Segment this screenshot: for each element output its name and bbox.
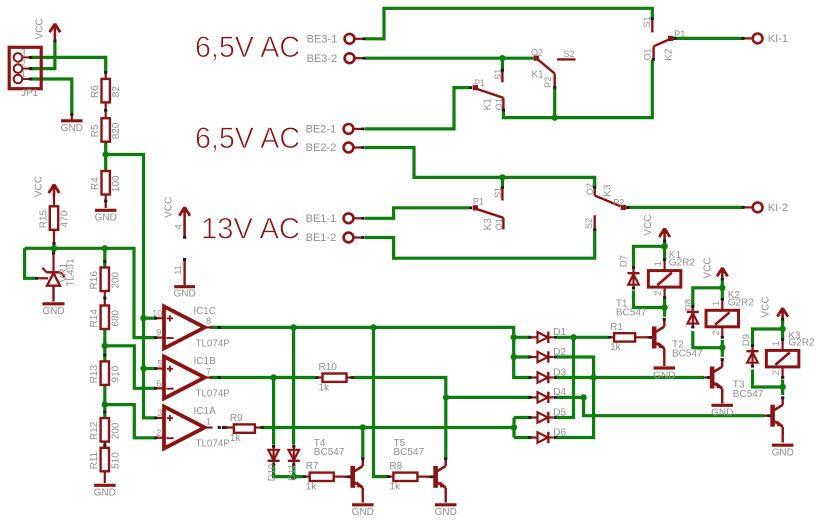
wire to D5 anode [514,416,531,419]
switch contact K2 (S1-P1-O1) [642,16,686,60]
junction S1 K3 on BE2-2 net [499,174,505,180]
svg-text:P1: P1 [674,29,685,39]
svg-text:BC547: BC547 [733,389,764,400]
wire to D4 anode [446,396,531,399]
wire D8 anode to K2 coil 2 [693,331,723,348]
svg-text:1: 1 [653,261,663,266]
svg-text:GND: GND [772,448,794,459]
transistor T1 BC547 [645,318,666,356]
svg-text:2: 2 [21,59,26,69]
svg-text:82: 82 [111,86,122,98]
wire D10 cathode to R7 [274,465,303,477]
svg-text:510: 510 [110,452,121,469]
wire IC1B out to R10 [210,376,316,379]
resistor R16 [89,268,121,292]
wire ref to VR1 reference pin [25,248,36,278]
wire IC1C out to D1 D2 anodes [210,327,531,357]
svg-text:O2: O2 [585,183,595,195]
wire S1 stub K1 [501,58,504,69]
wire P1 K2 to KI-1 [673,37,743,40]
wire D10 anode [272,378,275,445]
svg-text:BE2-2: BE2-2 [306,142,337,154]
wire D11 cathode down [292,465,295,477]
junction R16 top [102,245,108,251]
wire D9 anode to K3 coil 2 [753,370,783,388]
svg-text:BE2-1: BE2-1 [306,124,337,136]
wire IC1A out to R9 [223,426,228,429]
svg-text:2: 2 [771,370,781,375]
wire to pin 5 [144,367,157,370]
transistor T3 BC547 [764,396,785,434]
svg-text:S2: S2 [564,49,575,59]
svg-text:P2: P2 [613,197,624,207]
svg-text:D9: D9 [741,334,752,346]
svg-text:D8: D8 [684,299,695,311]
svg-text:GND: GND [435,507,457,518]
svg-text:5: 5 [157,359,162,369]
wire R6-R5 junction [105,103,107,119]
resistor R8 [389,461,417,492]
junction D11 branch [290,324,296,330]
relay K3 G2R2 [766,338,799,379]
switch contact K3 upper (O2-P2-S2) [584,183,629,231]
resistor R15 [38,206,70,230]
junction D10 branch [270,374,276,380]
diode D2 [528,351,556,362]
svg-text:P1: P1 [474,78,485,88]
diode D4 [528,392,556,403]
svg-text:G2R2: G2R2 [788,338,815,349]
terminal KI-1 [742,33,788,45]
terminal BE3-1 [307,34,366,46]
junction D1 anode [511,334,517,340]
terminal BE2-2 [306,142,365,154]
svg-text:GND: GND [653,370,675,381]
switch contact K3 lower (S1-P1-O1) [469,186,504,230]
svg-text:R16: R16 [89,271,100,290]
resistor R10 [319,362,347,393]
wire BE2-1 to P1 of K1 [365,88,470,129]
wire JP1 pin3 to R6 [31,57,106,71]
ground GND T3 [772,445,794,458]
junction K3 coil 2 [779,384,785,390]
wire R14-R13 tap up [103,329,106,346]
junction R8 branch [370,324,376,330]
diode D1 [528,332,556,343]
ground GND VR1 [42,304,64,317]
svg-text:D3: D3 [553,367,566,378]
wire VCC to D7 cathode [634,246,665,266]
svg-text:6,5V AC: 6,5V AC [195,122,300,155]
svg-text:IC1C: IC1C [194,306,216,317]
power VCC K2 [703,257,728,279]
resistor R7 [306,461,334,492]
wire O1 K1 to O1 K2 [503,60,652,118]
power VCC op-amp pin 4 [164,197,190,239]
ground GND R11 [94,485,116,498]
svg-text:3: 3 [21,47,26,57]
svg-text:GND: GND [61,123,83,134]
svg-text:D10: D10 [267,464,278,481]
svg-text:D11: D11 [287,464,298,481]
svg-text:GND: GND [173,289,195,300]
resistor R6 [90,79,122,103]
svg-text:1k: 1k [306,481,318,492]
svg-text:S1: S1 [642,16,652,27]
svg-text:100: 100 [111,175,122,192]
wire divider tap to op-amp + inputs [106,155,156,418]
terminal KI-2 [742,202,788,214]
junction D1/D5 cathodes [570,334,576,340]
resistor R12 [89,418,121,442]
wire tap to R12 [103,405,106,419]
wire R16-R14 [104,291,106,306]
wire VCC to JP1 pin2 [31,42,55,69]
ground GND T1 [653,368,675,381]
svg-text:O2: O2 [531,48,543,58]
wire R13-R12 tap [103,385,106,405]
wire R10 to T5 collector [353,378,446,460]
wire K3 coil to T3 collector [781,380,784,396]
svg-text:8: 8 [206,316,211,326]
wire to T4 collector [361,428,364,460]
resistor R11 [89,448,121,472]
svg-text:K3: K3 [483,218,494,231]
power VCC K1 [643,214,670,240]
svg-text:R14: R14 [89,309,100,328]
svg-text:D6: D6 [553,427,566,438]
wire P2 K3 to KI-2 [626,206,744,209]
wire VR1 cathode [52,250,54,272]
svg-text:6: 6 [156,378,161,388]
svg-text:R9: R9 [230,413,243,424]
resistor R1 [610,322,635,353]
svg-text:D5: D5 [553,407,566,418]
wire K2 coil to T2 collector [721,340,724,357]
svg-text:VCC: VCC [34,176,45,197]
svg-text:1: 1 [711,301,721,306]
svg-text:R6: R6 [90,85,101,98]
svg-text:D4: D4 [553,387,566,398]
terminal BE3-2 [307,53,366,65]
svg-text:2: 2 [711,330,721,335]
terminal BE1-2 [306,232,365,244]
svg-text:IC1B: IC1B [194,356,217,367]
svg-text:IC1A: IC1A [194,406,217,417]
svg-text:2: 2 [156,428,161,438]
relay K2 G2R2 [706,298,739,339]
junction K1 VCC [661,243,667,249]
wire tap to pin 6 [105,346,156,389]
wire VCC to D9 cathode [753,329,783,346]
svg-text:470: 470 [60,210,71,227]
wire BE1-1 to P1 of K3 [365,208,470,219]
ground GND op-amp pin 11 [173,258,196,300]
ground GND T2 [711,405,733,418]
svg-text:S2: S2 [584,218,594,229]
power VCC R15 [34,176,60,197]
svg-text:GND: GND [352,507,374,518]
wire BE2-2 to O2 of K3 [365,148,595,187]
resistor R5 [90,118,122,142]
wire tap to R13 [103,346,106,362]
connector JP1 [9,47,41,99]
wire D5 cathode vertical [557,337,574,417]
svg-text:4: 4 [174,224,184,229]
diode D5 [528,412,556,423]
svg-text:200: 200 [110,422,121,439]
svg-text:K2: K2 [664,48,675,61]
svg-text:7: 7 [206,366,211,376]
svg-text:K1: K1 [483,98,494,111]
svg-text:O1: O1 [494,218,504,230]
ground GND T5 [435,505,457,518]
junction K2 coil 2 [719,345,725,351]
svg-text:R13: R13 [89,365,100,384]
svg-text:BC547: BC547 [672,349,703,360]
svg-text:1k: 1k [389,481,401,492]
wire D11 anode [292,327,295,444]
wire D2/D6 cathodes vertical [557,357,594,438]
svg-text:D7: D7 [619,255,630,267]
voltage reference VR1 TL431 [35,258,76,302]
resistor R14 [89,306,121,330]
wire R12-R11 [104,442,106,447]
wire R9 to D5 D6 [262,426,515,429]
transistor T5 BC547 [427,457,448,495]
transistor T2 BC547 [703,358,724,396]
junction + input pin 5 [140,365,146,371]
svg-text:R7: R7 [306,461,319,472]
svg-text:1k: 1k [230,433,242,444]
wire P2 K1 down [553,89,556,118]
svg-text:GND: GND [711,408,733,419]
svg-text:O1: O1 [494,98,504,110]
svg-text:11: 11 [173,265,183,274]
svg-text:TL074P: TL074P [196,439,231,450]
terminal BE1-1 [306,213,365,225]
junction R14/R13 tap [102,343,108,349]
diode D7 [628,266,640,289]
junction D11 cathode [291,473,297,479]
junction K2 VCC [719,285,725,291]
svg-text:3: 3 [157,408,162,418]
junction D2 anode [511,354,517,360]
svg-text:KI-2: KI-2 [768,202,788,214]
wire BE1-2 to S2 of K3 [365,231,595,259]
svg-text:2: 2 [653,291,663,296]
svg-text:K3: K3 [602,184,613,197]
junction D4 branch [443,394,449,400]
svg-text:BC547: BC547 [616,307,647,318]
svg-text:1: 1 [21,69,26,79]
junction R15/VR1 [51,245,57,251]
svg-text:JP1: JP1 [21,88,39,99]
wire D5-D6 anode vertical [512,418,515,438]
wire D7 anode to K1 coil 2 [634,291,665,308]
wire BE3-2 to O2 of K1 [365,57,534,60]
wire VCC to K2 coil [721,281,724,298]
svg-text:680: 680 [110,309,121,326]
junction K1 coil 2 [661,304,667,310]
diode D6 [528,432,556,443]
svg-text:13V AC: 13V AC [201,213,300,246]
op-amp IC1B TL074P [154,356,230,400]
wire D3 cathode to T2 base [557,376,705,379]
svg-text:O1: O1 [642,48,652,60]
wire to D6 anode [514,436,531,439]
junction T4 collector [360,424,366,430]
svg-text:D1: D1 [553,327,566,338]
svg-text:R12: R12 [89,421,100,440]
svg-text:1: 1 [206,416,211,426]
junction D4 cathode [580,394,586,400]
svg-text:VCC: VCC [164,197,175,218]
svg-text:6,5V AC: 6,5V AC [195,31,300,64]
svg-text:S1: S1 [493,69,503,80]
wire VCC to D8 cathode [693,288,723,307]
svg-text:TL431: TL431 [65,258,76,287]
svg-text:R1: R1 [610,322,623,333]
wire rail to R16 [103,248,106,267]
svg-text:R10: R10 [319,362,338,373]
svg-text:BE3-1: BE3-1 [307,34,338,46]
op-amp IC1A TL074P [154,406,230,450]
op-amp IC1C TL074P [152,306,230,350]
wire R11 to GND [104,472,106,483]
power VCC JP1 [35,18,61,40]
svg-text:820: 820 [111,122,122,139]
wire VCC ref rail to pin 9 [25,248,156,337]
svg-text:R15: R15 [38,209,49,228]
svg-text:VCC: VCC [643,214,654,235]
svg-text:GND: GND [95,213,117,224]
power VCC K3 [761,296,788,320]
junction + input pin 10 [140,315,146,321]
junction R13/R12 tap [102,401,108,407]
diode D8 [687,305,699,328]
svg-text:BE1-1: BE1-1 [306,213,337,225]
ground GND JP1 [61,121,83,134]
wire S1 stub K3 [501,177,504,186]
svg-text:GND: GND [42,306,64,317]
wire BE3-1 to S1 of K2 [365,8,652,39]
svg-text:TL074P: TL074P [196,339,231,350]
svg-text:R5: R5 [90,124,101,137]
svg-text:1k: 1k [319,382,331,393]
svg-text:G2R2: G2R2 [669,257,696,268]
junction VR1 cathode on ref rail [51,245,57,251]
junction D2/D3/D6 cathodes [590,374,596,380]
svg-text:TL074P: TL074P [196,389,231,400]
svg-text:BC547: BC547 [314,447,345,458]
diode D11 [288,445,300,466]
wire R5-R4 with tap [104,141,107,171]
wire R15 to rail [53,231,55,249]
svg-text:BE1-2: BE1-2 [306,232,337,244]
switch contact K1 upper (O2-P2-S2) [531,48,576,89]
svg-text:1: 1 [771,341,781,346]
svg-text:KI-1: KI-1 [768,33,788,45]
svg-text:G2R2: G2R2 [728,297,755,308]
junction R5/R4 tap [103,151,109,157]
wire VCC to K1 coil [663,242,666,259]
svg-text:VCC: VCC [761,296,772,317]
resistor R9 [230,413,255,444]
resistor R4 [90,171,122,195]
wire D1 cathode to R1 net [557,336,574,339]
switch contact K1 lower (S1-P1-O1) [469,69,505,112]
svg-text:BE3-2: BE3-2 [307,53,338,65]
wire VCC to K3 coil [781,321,784,338]
svg-text:S1: S1 [493,187,503,198]
svg-text:D2: D2 [553,347,566,358]
diode D3 [528,372,556,383]
diode D10 [268,445,280,466]
junction S1 K1 on BE3-2 net [499,55,505,61]
resistor R13 [89,361,121,385]
svg-text:200: 200 [110,271,121,288]
svg-text:P2: P2 [543,77,553,88]
svg-text:R11: R11 [89,451,100,469]
ground GND R4 [95,210,117,223]
ground GND T4 [352,505,374,518]
junction K3 VCC [779,326,785,332]
terminal BE2-1 [306,124,365,136]
svg-text:10: 10 [152,308,162,318]
junction P2 K1 on bottom net [552,114,558,120]
wire to D3 anode [514,357,531,378]
svg-text:BC547: BC547 [394,447,425,458]
wire D4 cathode to T3 base [557,397,765,415]
svg-text:R4: R4 [90,177,101,190]
wire to pin 10 [144,317,157,320]
svg-text:VCC: VCC [703,257,714,278]
wire to D1 anode [514,336,531,339]
svg-text:910: 910 [110,365,121,382]
svg-text:1k: 1k [610,342,622,353]
svg-text:P1: P1 [473,196,484,206]
relay K1 G2R2 [648,258,681,299]
wire IC1C out to R8 [374,327,388,476]
svg-text:GND: GND [94,488,116,499]
wire tap to pin 2 [105,405,156,438]
wire K1 coil to T1 collector [663,299,666,317]
svg-text:9: 9 [156,328,161,338]
diode D9 [747,344,759,367]
svg-text:R8: R8 [389,461,402,472]
wire to R1 [574,336,609,339]
svg-text:VCC: VCC [35,18,46,39]
junction D5/D6 anodes [511,424,517,430]
wire JP1 pin1 to GND [31,79,72,114]
transistor T4 BC547 [344,457,365,495]
